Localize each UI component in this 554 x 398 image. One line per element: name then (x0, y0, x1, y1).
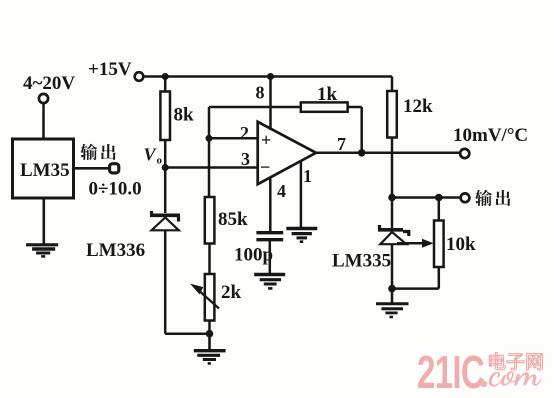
resistor 2k variable (192, 274, 242, 321)
wire pin 3 input from V0 node (165, 166, 258, 169)
wire LM336 bottom to 2k ground node (165, 332, 209, 335)
svg-text:LM35: LM35 (20, 160, 70, 181)
wire op-amp output pin 7 (316, 152, 460, 155)
label V0 (144, 145, 163, 167)
wire 12k bottom down to output-rail node (crosses pin7 wire) (391, 138, 394, 198)
label LM336 (86, 240, 145, 261)
wire output rail to terminal (392, 196, 460, 199)
svg-text:3: 3 (241, 149, 250, 169)
output terminal 10mV/C (453, 125, 528, 158)
capacitor 100p (234, 233, 283, 274)
svg-text:12k: 12k (403, 96, 433, 117)
label LM335 (332, 251, 391, 272)
ground under 100p (254, 275, 285, 289)
power terminal +15V (88, 59, 143, 81)
svg-text:LM335: LM335 (332, 251, 391, 272)
op-amp pin number 1 (303, 166, 312, 186)
op-amp pin number 2 (240, 123, 249, 143)
ground under LM335 (376, 289, 409, 317)
node junction pin2 (206, 135, 213, 142)
svg-text:4: 4 (277, 181, 286, 201)
node junction 10k top (435, 194, 443, 202)
wire 10k bottom to LM335 node (392, 287, 439, 290)
svg-text:8: 8 (256, 83, 265, 103)
output terminal (right) (461, 193, 470, 202)
svg-text:100p: 100p (234, 245, 273, 266)
zener diode LM335 (378, 198, 409, 289)
sensor LM35 (13, 139, 74, 198)
node V0 junction (162, 164, 169, 171)
svg-text:−: − (260, 157, 270, 177)
svg-text:10k: 10k (446, 234, 476, 255)
ground under 2k (194, 334, 226, 364)
wire 12k drop from top rail (391, 77, 394, 92)
label 0-10.0 range (89, 179, 142, 200)
svg-text:85k: 85k (218, 209, 248, 230)
svg-text:o: o (157, 155, 163, 167)
node junction 2k bottom (206, 330, 214, 338)
wire pin 2 vertical down to 85k (208, 138, 211, 197)
label shuchu (right output) (475, 190, 510, 206)
LM335 adjust arrow to 10k (397, 239, 434, 248)
node junction feedback/output (358, 149, 366, 157)
wire 85k to 2k (208, 244, 211, 275)
zener diode LM336 (150, 168, 180, 334)
op-amp U1 (258, 122, 316, 184)
svg-text:21IC: 21IC (417, 348, 484, 398)
node junction LM335 bottom (388, 285, 396, 293)
wire 1k right end down to output wire (348, 107, 362, 153)
wire pin 8 drop into op-amp top (269, 77, 272, 131)
watermark 21IC.com logo (417, 348, 542, 398)
svg-text:1: 1 (303, 166, 312, 186)
op-amp pin number 3 (241, 149, 250, 169)
LM35 output terminal (110, 164, 119, 173)
svg-text:8k: 8k (174, 105, 195, 126)
svg-text:LM336: LM336 (86, 240, 145, 261)
wire 4~20V terminal to LM35 (42, 103, 45, 139)
svg-text:7: 7 (337, 134, 346, 154)
svg-text:+: + (261, 130, 271, 150)
svg-text:V: V (144, 145, 158, 165)
resistor 12k (387, 91, 433, 138)
svg-text:4~20V: 4~20V (23, 73, 75, 94)
svg-text:10mV/°C: 10mV/°C (453, 125, 528, 146)
resistor 1k (301, 84, 348, 112)
svg-text:1k: 1k (317, 84, 338, 105)
svg-text:2: 2 (240, 123, 249, 143)
node junction top of pin 8 (267, 73, 274, 80)
ground under pin 1 (286, 229, 317, 242)
resistor 8k (160, 77, 194, 168)
label shuchu (LM35 output) (80, 144, 115, 160)
node junction 12k/LM335/output-rail (388, 194, 396, 202)
svg-text:+15V: +15V (88, 59, 132, 80)
wire op-amp pin 4 drop (269, 177, 272, 232)
potentiometer 10k (434, 198, 476, 289)
ground under LM35 (26, 245, 58, 257)
op-amp pin number 4 (277, 181, 286, 201)
wire LM35 ground (42, 199, 45, 245)
op-amp pin number 7 (337, 134, 346, 154)
wire pin 2 input (209, 137, 258, 140)
wire LM35 output pin (74, 167, 109, 170)
op-amp pin number 8 (256, 83, 265, 103)
node junction top of 8k (162, 73, 169, 80)
wire top +15V rail (144, 75, 392, 78)
wire 2k bottom to ground node (208, 321, 211, 334)
input terminal 4~20V (23, 73, 75, 103)
wire feedback from pin2 node up and right to 1k (209, 107, 301, 138)
svg-text:2k: 2k (221, 282, 242, 303)
resistor 85k (205, 197, 248, 244)
svg-text:0÷10.0: 0÷10.0 (89, 179, 142, 200)
wire op-amp pin 1 drop (300, 162, 303, 229)
watermark dianziwang characters (489, 353, 542, 371)
